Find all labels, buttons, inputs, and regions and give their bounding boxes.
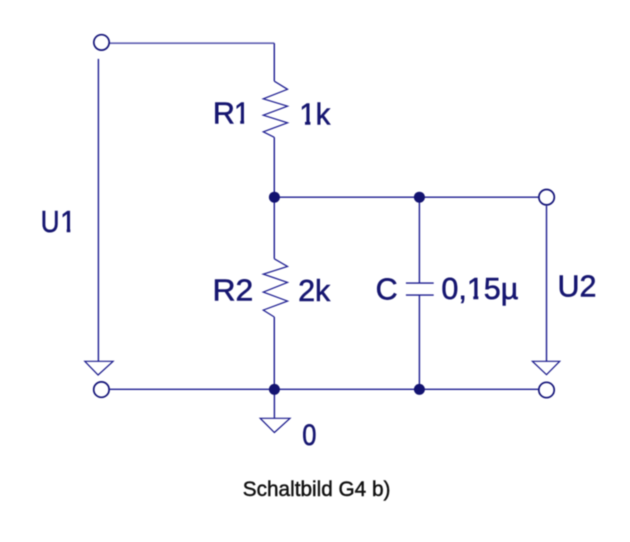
wire R1 bottom to middle node [273,137,275,197]
node junction dot (bottom rail / R2) [269,384,280,395]
ground symbol triangle [260,418,290,432]
wire capacitor bottom lead [418,295,420,389]
svg-text:0,15µ: 0,15µ [441,272,518,306]
terminal circle right-mid (U2 +) [539,190,554,205]
svg-text:R: R [213,96,235,130]
svg-text:U: U [41,205,60,239]
wire node A down to R2 [273,197,275,259]
wire bottom rail [110,388,538,390]
wire left branch U1 [97,59,99,362]
arrow head U1 (voltage arrow down) [85,361,113,375]
wire capacitor top lead [418,197,420,283]
svg-text:Schaltbild G4 b): Schaltbild G4 b) [243,478,391,501]
white masks to remove Liberation "1" foot serifs (target font has none) [61,119,483,301]
arrow head U2 (voltage arrow down) [532,361,559,374]
terminal circle bottom-right (U2 -) [539,382,554,397]
capacitor C plates [406,283,434,295]
terminal circle bottom-left (U1 -) [94,382,109,397]
svg-text:C: C [376,273,398,307]
svg-text:1: 1 [234,96,250,130]
svg-text:1k: 1k [299,98,331,132]
wire top horizontal from U1 terminal to R1 branch [110,42,274,44]
svg-text:2k: 2k [298,274,331,308]
node junction dot (cap top) [414,192,425,203]
svg-text:R2: R2 [213,273,254,307]
svg-text:0: 0 [302,419,316,452]
svg-text:1: 1 [60,205,76,239]
wire right branch U2 [546,206,548,362]
node junction dot (bottom rail / cap) [414,384,425,395]
wire R1 branch drop from top rail [273,43,275,81]
wire ground stub [273,389,275,418]
wire middle horizontal node A to U2 terminal [274,196,538,198]
svg-text:U2: U2 [558,270,597,304]
resistor R2 [263,259,287,317]
node A junction dot (mid left) [269,192,280,203]
resistor R1 [263,81,287,137]
wire R2 bottom to bottom rail [273,317,275,389]
terminal circle top-left (U1 +) [94,35,109,50]
